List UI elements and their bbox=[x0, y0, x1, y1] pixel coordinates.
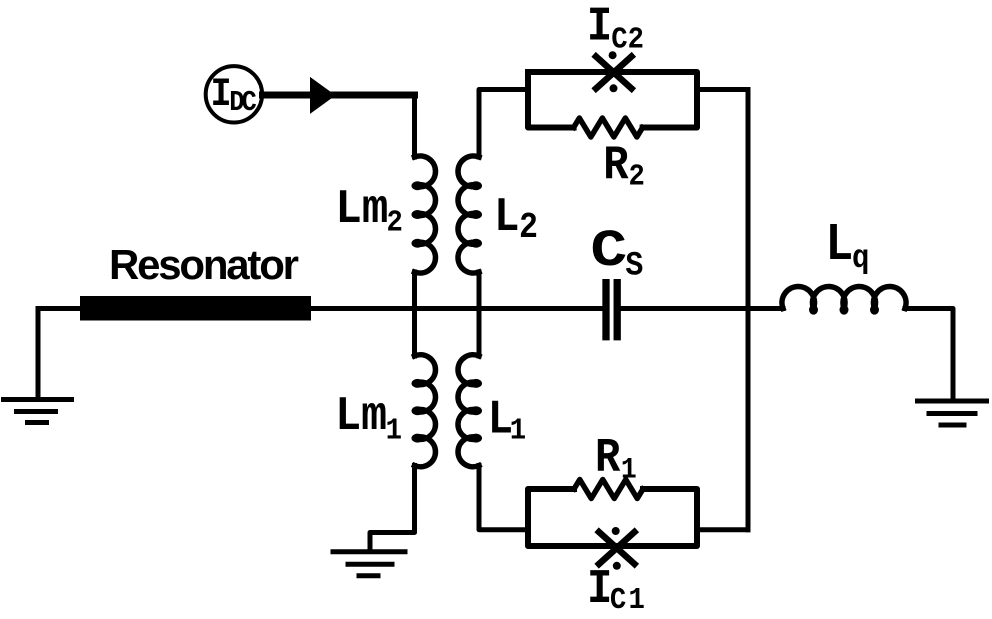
svg-text:2: 2 bbox=[629, 159, 645, 194]
svg-text:q: q bbox=[852, 240, 869, 277]
wire main horizontal left segment bbox=[38, 306, 602, 311]
svg-text:C: C bbox=[590, 223, 627, 282]
svg-text:2: 2 bbox=[519, 208, 538, 248]
wire right vertical bus bbox=[746, 90, 751, 530]
svg-text:Lm: Lm bbox=[335, 389, 387, 444]
inductor Lq bbox=[782, 286, 906, 314]
label R1 bbox=[595, 430, 637, 487]
wire lower box to right bus bbox=[697, 527, 748, 532]
current source IDC bbox=[206, 66, 262, 122]
svg-text:R: R bbox=[603, 137, 629, 192]
wire L2 to L1 crossing main wire bbox=[477, 272, 482, 356]
wire left ground lead bbox=[36, 309, 41, 397]
label R2 bbox=[603, 137, 645, 194]
box lower (R1 parallel JJ IC1) bbox=[528, 489, 697, 546]
wire upper box to right bus bbox=[697, 87, 748, 92]
inductor L2 bbox=[458, 156, 482, 273]
svg-text:S: S bbox=[625, 246, 643, 285]
capacitor CS bbox=[606, 283, 617, 337]
label L1 bbox=[488, 392, 526, 448]
label Lq bbox=[825, 215, 869, 278]
arrow head bbox=[310, 77, 336, 114]
josephson junction IC1 bbox=[599, 527, 635, 570]
label CS bbox=[590, 223, 643, 285]
ground right bbox=[918, 401, 987, 425]
josephson junction IC2 bbox=[596, 51, 632, 92]
svg-text:1: 1 bbox=[386, 413, 402, 448]
inductor Lm2 bbox=[412, 156, 436, 273]
wire Lm2 to Lm1 crossing main wire bbox=[412, 272, 417, 356]
label IDC bbox=[211, 73, 257, 119]
wire from IDC to transformer bbox=[263, 92, 415, 99]
svg-text:Lm: Lm bbox=[335, 183, 388, 237]
svg-text:2: 2 bbox=[387, 205, 403, 240]
svg-text:1: 1 bbox=[621, 453, 637, 487]
svg-text:L: L bbox=[825, 215, 853, 276]
svg-text:L: L bbox=[494, 190, 519, 245]
box upper (JJ IC2 parallel R2) bbox=[528, 72, 697, 128]
inductor L1 bbox=[458, 355, 482, 467]
wire right down lead bbox=[905, 309, 953, 400]
svg-text:DC: DC bbox=[229, 87, 256, 120]
resistor R1 bbox=[574, 480, 643, 499]
svg-text:1: 1 bbox=[510, 413, 526, 448]
label IC1 bbox=[587, 562, 647, 618]
svg-text:R: R bbox=[595, 430, 621, 485]
label Lm2 bbox=[335, 183, 402, 240]
svg-text:I: I bbox=[587, 562, 612, 617]
wire L1 bottom to lower box bbox=[479, 466, 528, 530]
resonator bbox=[80, 296, 311, 321]
svg-text:C1: C1 bbox=[610, 582, 647, 617]
resistor R2 bbox=[574, 118, 643, 137]
wire main horizontal right segment bbox=[621, 306, 783, 311]
label Resonator bbox=[109, 241, 299, 288]
wire Lm1 to ground jog bbox=[370, 466, 415, 550]
svg-text:I: I bbox=[587, 0, 612, 54]
wire vertical into Lm2 bbox=[412, 95, 417, 157]
ground left bbox=[4, 400, 72, 423]
ground under Lm1 bbox=[333, 552, 405, 576]
label IC2 bbox=[587, 0, 644, 57]
inductor Lm1 bbox=[412, 355, 436, 467]
label L2 bbox=[494, 190, 538, 249]
svg-text:Resonator: Resonator bbox=[109, 241, 299, 288]
svg-text:C2: C2 bbox=[611, 22, 644, 57]
label Lm1 bbox=[335, 389, 402, 448]
wire L2 top to JJ box bbox=[479, 90, 528, 158]
